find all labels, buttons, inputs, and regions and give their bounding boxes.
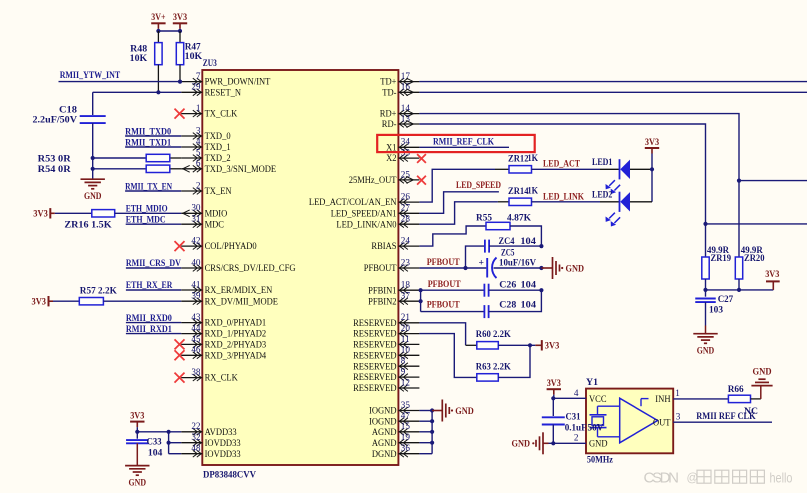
wire ZC5 to column (494, 267, 542, 269)
oscillator internal crystal (590, 406, 620, 437)
wire net RMII_YTW_INT to pin 7 (59, 81, 182, 83)
junction column/ZC4 (539, 244, 543, 248)
svg-text:3V3: 3V3 (32, 297, 47, 308)
wire GND stub (432, 410, 442, 412)
wire R48 top lead (157, 31, 159, 43)
pin 38 RX_CLK (left) (181, 367, 238, 384)
svg-text:LED1: LED1 (592, 157, 613, 168)
wire pin 28 to ZR14 (419, 202, 498, 224)
svg-text:TD-: TD- (382, 87, 396, 98)
wire net RD- to ZR19 column (419, 124, 705, 257)
svg-text:28: 28 (401, 214, 411, 224)
svg-text:10K: 10K (185, 51, 203, 62)
junction R47/PWR_DOWN (178, 80, 182, 84)
svg-text:LED_LINK/AN0: LED_LINK/AN0 (336, 219, 396, 230)
svg-text:GND: GND (589, 439, 608, 450)
wire 3V3 to ZR16 (55, 212, 92, 214)
svg-text:RESERVED: RESERVED (353, 318, 396, 329)
svg-text:RXD_1/PHYAD2: RXD_1/PHYAD2 (205, 329, 267, 340)
svg-text:48: 48 (191, 443, 201, 453)
wire net RMII_TX_EN to pin 2 (125, 190, 181, 192)
pin 21 RESERVED (right) (353, 312, 419, 329)
svg-text:ZU3: ZU3 (203, 58, 217, 69)
wire LED2 anode to rail (630, 201, 652, 203)
wire C27 to GND (705, 302, 707, 325)
svg-text:3V3: 3V3 (765, 269, 779, 280)
svg-text:PFBOUT: PFBOUT (427, 300, 460, 311)
svg-text:LED_ACT/COL/AN_EN: LED_ACT/COL/AN_EN (309, 197, 397, 208)
wire IOGND/AGND/DGND rail (431, 411, 433, 454)
highlight box around RMII_REF_CLK (377, 135, 535, 152)
svg-text:RESERVED: RESERVED (353, 361, 396, 372)
svg-text:C33: C33 (147, 437, 162, 448)
resistor R53 0R (38, 153, 170, 164)
svg-text:GND: GND (753, 367, 772, 378)
wire net ETH_RX_ER to pin 41 (126, 289, 181, 291)
svg-text:3V3: 3V3 (545, 341, 560, 352)
svg-text:GND: GND (455, 406, 474, 417)
power port 3V3 at C33 (130, 421, 144, 423)
wire net ETH_MDC to pin 31 (126, 223, 182, 225)
wire C31 to GND row (552, 425, 554, 444)
svg-text:MDC: MDC (205, 219, 224, 230)
svg-text:AGND: AGND (372, 438, 397, 449)
wire pin 26 to ZR12 (419, 169, 495, 202)
svg-text:RXD_2/PHYAD3: RXD_2/PHYAD3 (205, 340, 267, 351)
wire net RMII_TXD1 to pin 4 (125, 146, 181, 148)
svg-text:2: 2 (574, 433, 579, 443)
wire R48 bottom lead to RESET_N net (157, 65, 159, 93)
power port 3V3 at termination rail (765, 269, 780, 290)
svg-text:PFBIN1: PFBIN1 (368, 285, 396, 296)
svg-text:RESERVED: RESERVED (353, 383, 396, 394)
junction PFBIN tie bottom (419, 299, 423, 303)
svg-text:RD+: RD+ (380, 109, 397, 120)
wire PFBIN1-PFBIN2 tie (420, 290, 422, 311)
svg-text:104: 104 (521, 280, 537, 291)
resistor R63 2.2K (476, 361, 511, 381)
capacitor C27 103 (695, 290, 733, 316)
pin 4 TXD_1 (left) (181, 136, 230, 153)
wire junction to 3V3 bar (530, 344, 535, 346)
svg-text:RBIAS: RBIAS (371, 241, 396, 252)
svg-text:R54 0R: R54 0R (38, 164, 72, 175)
wire pin 21 to R60 (419, 323, 465, 346)
svg-text:RX_DV/MII_MODE: RX_DV/MII_MODE (205, 296, 278, 307)
pin 28 LED_LINK/AN0 (right) (336, 214, 419, 231)
svg-text:RMII_YTW_INT: RMII_YTW_INT (60, 70, 121, 81)
svg-text:104: 104 (148, 447, 163, 458)
svg-text:43: 43 (191, 312, 201, 322)
svg-text:GND: GND (566, 263, 585, 274)
svg-text:7: 7 (196, 71, 201, 81)
resistor ZR12 1K (495, 153, 538, 173)
junction RD+ branch (737, 179, 741, 183)
svg-text:18: 18 (401, 280, 411, 290)
wire net RD+ to ZR20 column (419, 114, 739, 257)
svg-text:TXD_3/SNI_MODE: TXD_3/SNI_MODE (205, 164, 277, 175)
svg-text:103: 103 (709, 305, 723, 316)
wire TXD_3 net through R54 (93, 168, 147, 170)
svg-text:3V3: 3V3 (547, 378, 561, 389)
junction C18/TXD_2 net (91, 156, 95, 160)
svg-text:hello: hello (770, 470, 793, 486)
pin 26 LED_ACT/COL/AN_EN (right) (309, 192, 420, 209)
svg-text:50MHz: 50MHz (587, 454, 614, 465)
wire 3V3 to LED junction (651, 154, 653, 170)
capacitor ZC5 10uF/16V electrolytic (479, 247, 537, 278)
svg-text:RXD_3/PHYAD4: RXD_3/PHYAD4 (205, 350, 267, 361)
svg-text:2.2uF/50V: 2.2uF/50V (33, 114, 78, 125)
pin 46 RXD_3/PHYAD4 (left) (181, 345, 266, 362)
junction at 3V3 rail (178, 29, 182, 33)
wire pin 24 RBIAS staircase to R55 (419, 226, 486, 246)
wire LED1 anode to 3V3 rail (630, 168, 652, 170)
resistor R60 2.2K (466, 329, 512, 349)
svg-text:TXD_0: TXD_0 (205, 131, 231, 142)
svg-text:3V3: 3V3 (645, 137, 659, 148)
pin 33 X2 (right) (386, 148, 419, 165)
junction R60/R63/3V3 (528, 343, 532, 347)
svg-text:RXD_0/PHYAD1: RXD_0/PHYAD1 (205, 318, 267, 329)
svg-text:20: 20 (401, 323, 411, 333)
resistor ZR19 49.9R (702, 245, 731, 279)
svg-text:36: 36 (401, 443, 411, 453)
no-connect X on pin 38 RX_CLK (175, 373, 185, 383)
svg-text:27: 27 (401, 203, 411, 213)
wire rail down to LED2 (651, 169, 653, 202)
wire R63 up to junction (498, 345, 530, 377)
svg-text:RD-: RD- (382, 119, 397, 130)
pin 18 PFBIN1 (right) (368, 280, 419, 297)
pin 16 TD- (right) (382, 82, 419, 99)
svg-text:6: 6 (196, 158, 201, 168)
svg-text:R63 2.2K: R63 2.2K (476, 361, 511, 372)
svg-text:C27: C27 (718, 294, 734, 305)
ground symbol below C27 (693, 333, 717, 335)
svg-text:3V3: 3V3 (130, 410, 144, 421)
junction PFBOUT/ZC4 branch (463, 266, 467, 270)
pin 24 RBIAS (right) (371, 236, 419, 253)
svg-text:41: 41 (191, 279, 201, 289)
svg-text:TX_CLK: TX_CLK (205, 109, 238, 120)
wire R60 to 3V3 junction (498, 344, 530, 346)
wire GND row stub (549, 442, 554, 444)
wire 3V3 to VCC (553, 395, 555, 399)
svg-text:2: 2 (196, 180, 201, 190)
svg-text:ZR12: ZR12 (508, 154, 529, 165)
svg-text:3V+: 3V+ (151, 12, 165, 23)
svg-text:4.87K: 4.87K (507, 213, 532, 224)
svg-text:42: 42 (191, 236, 201, 246)
wire RESET_N down to C18 (92, 92, 94, 115)
resistor R55 4.87K (476, 213, 532, 230)
wire R66 to GND (751, 398, 761, 400)
svg-text:RESERVED: RESERVED (353, 372, 396, 383)
svg-text:X2: X2 (386, 153, 396, 164)
wire 3V3 rail to AVDD33 pin 22 (136, 427, 138, 432)
pin 30 MDIO (left) (181, 203, 227, 220)
svg-text:R53 0R: R53 0R (38, 153, 72, 164)
no-connect X on pin 33 X2 (417, 154, 426, 163)
power port 3V3 at LEDs (645, 147, 659, 149)
svg-text:PFBIN2: PFBIN2 (368, 296, 396, 307)
pin 13 RD- (right) (382, 113, 420, 130)
ground symbol at PFBOUT filter (552, 257, 554, 279)
svg-text:RESERVED: RESERVED (353, 340, 396, 351)
svg-text:OUT: OUT (653, 418, 671, 429)
pin 11 RESERVED (right) (353, 334, 419, 351)
svg-text:21: 21 (401, 312, 411, 322)
svg-text:1K: 1K (528, 185, 539, 196)
svg-text:AVDD33: AVDD33 (205, 427, 237, 438)
junction column/GND branch (539, 266, 543, 270)
no-connect X on pin 25 25MHz_OUT (417, 176, 426, 185)
junction IOVDD33 pin32 tap (167, 441, 171, 445)
pin 45 RXD_2/PHYAD3 (left) (181, 334, 266, 351)
svg-text:12: 12 (401, 377, 411, 387)
pin 2 TX_EN (left) (181, 180, 231, 197)
oscillator internal INH stub (640, 399, 642, 407)
junction R48/RESET_N (156, 90, 160, 94)
svg-text:COL/PHYAD0: COL/PHYAD0 (205, 241, 257, 252)
junction 3V3/C33 (135, 430, 139, 434)
svg-text:23: 23 (401, 257, 411, 267)
junction GND rail p47 (430, 419, 434, 423)
ground symbol at IOGND rail (441, 400, 443, 422)
wire net RMII_CRS_DV to pin 40 (126, 267, 181, 269)
wire net RMII_RXD1 to pin 44 (126, 333, 181, 335)
svg-text:VCC: VCC (589, 394, 607, 405)
svg-text:4: 4 (196, 136, 201, 146)
no-connect X on pin 1 TX_CLK (175, 109, 185, 119)
svg-text:1: 1 (675, 388, 680, 398)
svg-text:PFBOUT: PFBOUT (364, 263, 397, 274)
svg-text:ZR14: ZR14 (508, 186, 529, 197)
wire ZC4 branch (466, 246, 486, 268)
svg-text:R55: R55 (476, 213, 492, 224)
svg-text:10K: 10K (130, 53, 148, 64)
svg-text:R57 2.2K: R57 2.2K (80, 285, 118, 296)
svg-text:MDIO: MDIO (205, 208, 228, 219)
wire C26 to column (489, 289, 542, 291)
pin 47 IOGND (right) (369, 411, 419, 428)
svg-text:10uF/16V: 10uF/16V (499, 257, 536, 268)
wire net RMII_REF_CLK from pin 34 X1 (419, 146, 509, 148)
svg-text:3V3: 3V3 (173, 12, 187, 23)
svg-text:31: 31 (191, 214, 201, 224)
svg-text:38: 38 (191, 367, 201, 377)
svg-text:26: 26 (401, 192, 411, 202)
pin 12 RESERVED (right) (353, 377, 419, 394)
svg-text:AGND: AGND (372, 427, 397, 438)
wire R47 top lead (179, 31, 181, 43)
junction ZR20 bottom (737, 288, 741, 292)
junction AVDD rail split (167, 430, 171, 434)
svg-text:25MHz_OUT: 25MHz_OUT (349, 175, 397, 186)
junction PFBIN tie top (419, 288, 423, 292)
svg-text:ZR16 1.5K: ZR16 1.5K (64, 219, 112, 230)
resistor R66 (728, 384, 751, 402)
LED LED1 (592, 157, 630, 194)
oscillator internal buffer triangle (620, 398, 658, 443)
junction column/C26 (539, 288, 543, 292)
no-connect X on pin 45 RXD_2/PHYAD3 (175, 339, 185, 349)
svg-text:TXD_2: TXD_2 (205, 153, 231, 164)
pin 5 TXD_2 (left) (181, 147, 230, 164)
pin 17 TD+ (right) (380, 71, 419, 88)
svg-text:TD+: TD+ (380, 77, 397, 88)
pin 20 RESERVED (right) (353, 323, 419, 340)
wire C18 to GND / R53 R54 taps (92, 123, 94, 179)
pin 9 RESERVED (right) (353, 367, 419, 384)
wire 3V3 to R57 (53, 300, 79, 302)
ground symbol at oscillator (542, 432, 544, 454)
capacitor C31 0.1uF (542, 411, 587, 433)
resistor R47 10K (176, 42, 202, 65)
junction C18/TXD_3 net (91, 167, 95, 171)
pin 10 RESERVED (right) (353, 345, 419, 362)
wire C33 to GND (136, 443, 138, 465)
svg-text:+: + (479, 257, 484, 268)
power port 3V3 at R57 (48, 296, 50, 306)
svg-text:LED_ACT: LED_ACT (543, 159, 580, 170)
pin 23 PFBOUT (right) (364, 257, 420, 274)
svg-text:39: 39 (191, 291, 201, 301)
wire C28 to column (489, 290, 542, 311)
wire pin 20 to R63 (419, 334, 476, 378)
svg-text:TXD_1: TXD_1 (205, 142, 231, 153)
pin 1 TX_CLK (left) (181, 103, 237, 120)
svg-text:35: 35 (401, 400, 411, 410)
svg-text:44: 44 (191, 323, 201, 333)
svg-text:DP83848CVV: DP83848CVV (203, 469, 256, 480)
svg-text:ZR19: ZR19 (711, 253, 732, 264)
pin 31 MDC (left) (181, 214, 224, 231)
svg-text:PWR_DOWN/INT: PWR_DOWN/INT (205, 77, 271, 88)
resistor ZR16 1.5K (64, 210, 114, 231)
pin 37 PFBIN2 (right) (368, 291, 419, 308)
svg-text:@: @ (687, 473, 699, 485)
power port 3V+ (151, 22, 165, 24)
svg-text:R66: R66 (728, 384, 744, 395)
wire RD+ branch to edge (739, 180, 807, 182)
power port 3V3 (top) (173, 22, 187, 24)
pin 15 AGND (right) (372, 421, 420, 438)
ground symbol above R66 (flipped) (751, 385, 772, 387)
junction ZR19/C27 (703, 288, 707, 292)
svg-text:29: 29 (191, 82, 201, 92)
wire column GND stub (541, 267, 552, 269)
svg-text:TX_EN: TX_EN (205, 186, 232, 197)
svg-text:1K: 1K (528, 153, 539, 164)
svg-text:24: 24 (401, 236, 411, 246)
svg-text:IOVDD33: IOVDD33 (205, 438, 241, 449)
capacitor C18 2.2uF/50V (33, 105, 106, 126)
svg-text:3: 3 (196, 125, 201, 135)
svg-text:34: 34 (401, 137, 411, 147)
svg-text:CSDN: CSDN (644, 470, 680, 487)
svg-text:LED_SPEED/AN1: LED_SPEED/AN1 (331, 208, 397, 219)
svg-text:R60 2.2K: R60 2.2K (476, 329, 511, 340)
svg-text:8: 8 (401, 356, 406, 366)
svg-text:3: 3 (676, 411, 681, 421)
resistor ZR14 1K (498, 185, 539, 205)
pin 14 RD+ (right) (380, 103, 420, 120)
svg-text:50V: 50V (588, 423, 604, 434)
wire ZC4 to column (489, 245, 541, 247)
svg-text:CRS/CRS_DV/LED_CFG: CRS/CRS_DV/LED_CFG (205, 263, 296, 274)
pin 7 PWR_DOWN/INT (left) (181, 71, 270, 88)
svg-text:15: 15 (401, 421, 411, 431)
wire net TD+ to edge (419, 81, 807, 83)
power port 3V3 at ZR16 (49, 208, 51, 218)
svg-text:3V3: 3V3 (33, 209, 48, 220)
svg-text:4: 4 (574, 388, 579, 398)
svg-text:NC: NC (744, 406, 758, 417)
svg-text:PFBOUT: PFBOUT (427, 257, 460, 268)
wire net RMII_RXD0 to pin 43 (126, 322, 181, 324)
wire net RMII_TXD0 to pin 3 (125, 135, 181, 137)
wire pin 23 PFBOUT to ZC5 (419, 267, 486, 269)
svg-text:LED_SPEED: LED_SPEED (456, 180, 501, 191)
junction C31/GND row (551, 441, 555, 445)
pin 41 RX_ER/MDIX_EN (left) (181, 279, 272, 296)
pin 48 IOVDD33 (left) (181, 443, 240, 460)
wire R57 to pin 39 (103, 300, 181, 302)
wire 3V+/3V3 tie (157, 29, 159, 31)
wire RD- branch to edge (706, 223, 807, 225)
resistor R54 0R (38, 164, 170, 175)
pin 36 DGND (right) (372, 443, 420, 460)
wire ZR14 to LED2 (532, 201, 601, 203)
pin 27 LED_SPEED/AN1 (right) (331, 203, 420, 220)
svg-text:RX_CLK: RX_CLK (205, 373, 238, 384)
svg-text:RESERVED: RESERVED (353, 329, 396, 340)
svg-text:19: 19 (401, 432, 411, 442)
pin 35 IOGND (right) (369, 400, 419, 417)
pin 8 RESERVED (right) (353, 356, 419, 373)
pin 32 IOVDD33 (left) (181, 432, 240, 449)
pin 19 AGND (right) (372, 432, 420, 449)
wire ZR19/ZR20 bottoms to 3V3 (705, 279, 707, 290)
junction GND rail p35 (430, 408, 434, 412)
capacitor ZC4 104 (485, 236, 536, 253)
svg-text:RESERVED: RESERVED (353, 350, 396, 361)
svg-text:PFBOUT: PFBOUT (428, 279, 461, 290)
capacitor C33 104 (126, 432, 163, 459)
wire ZR16 to pin 30 MDIO (115, 212, 182, 214)
svg-text:GND: GND (84, 191, 102, 202)
svg-text:RX_ER/MDIX_EN: RX_ER/MDIX_EN (205, 285, 273, 296)
svg-text:ZC4: ZC4 (499, 236, 515, 247)
pin 3 TXD_0 (left) (181, 125, 230, 142)
svg-text:46: 46 (191, 345, 201, 355)
svg-text:ETH_MDIO: ETH_MDIO (126, 204, 168, 215)
svg-text:0.1uF: 0.1uF (565, 423, 587, 434)
power port 3V3 at oscillator (547, 388, 561, 390)
chip U=ZU3 DP83848CVV body (202, 70, 398, 465)
resistor ZR20 49.9R (735, 245, 764, 279)
no-connect X on pin 42 COL/PHYAD0 (175, 241, 185, 251)
svg-text:RMII_REF_CLK: RMII_REF_CLK (433, 136, 494, 147)
pin 22 AVDD33 (left) (181, 421, 237, 438)
junction GND rail p19 (430, 441, 434, 445)
svg-text:GND: GND (512, 439, 531, 450)
no-connect X on pin 46 RXD_3/PHYAD4 (175, 350, 185, 360)
LED LED2 (592, 190, 630, 227)
svg-text:GND: GND (697, 346, 715, 357)
